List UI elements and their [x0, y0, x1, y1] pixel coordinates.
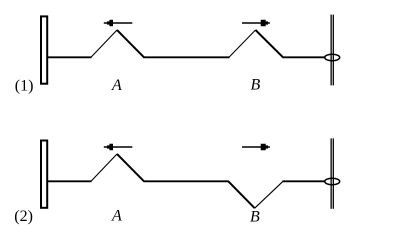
wire string segment middle diagram 2: [144, 180, 229, 182]
pulse B down-slope (inverted) diagram 2: [228, 181, 254, 208]
wire string segment right diagram 1: [283, 56, 325, 58]
wire string segment middle diagram 1: [144, 56, 230, 58]
svg-text:(1): (1): [15, 78, 34, 95]
pulse A down-slope diagram 1: [117, 30, 144, 57]
pulse B up-slope (inverted) diagram 2: [255, 181, 283, 208]
arrow left (velocity of A) diagram 2: [104, 144, 133, 151]
pulse A down-slope diagram 2: [117, 154, 144, 181]
pole (free end post) diagram 2: [331, 138, 333, 208]
arrow right (velocity of B) diagram 1: [242, 20, 270, 26]
arrow left (velocity of A) diagram 1: [104, 20, 133, 27]
ring (free end) diagram 1: [325, 54, 340, 60]
pulse B up-slope diagram 1: [229, 30, 256, 57]
svg-text:B: B: [250, 209, 260, 226]
pulse A up-slope diagram 1: [91, 30, 117, 57]
svg-text:A: A: [111, 208, 122, 225]
wire string segment left diagram 2: [48, 180, 92, 182]
pole (free end post) diagram 1: [331, 15, 333, 86]
pulse A up-slope diagram 2: [91, 154, 117, 181]
svg-text:B: B: [251, 77, 261, 94]
svg-text:(2): (2): [14, 208, 33, 225]
arrow right (velocity of B) diagram 2: [242, 144, 270, 150]
wall (fixed end) diagram 1: [41, 16, 47, 83]
wire string segment right diagram 2: [283, 180, 325, 182]
svg-text:A: A: [111, 77, 122, 94]
pulse B down-slope diagram 1: [256, 30, 284, 57]
wall (fixed end) diagram 2: [41, 141, 47, 208]
ring (free end) diagram 2: [325, 178, 340, 184]
wire string segment left diagram 1: [48, 56, 92, 58]
